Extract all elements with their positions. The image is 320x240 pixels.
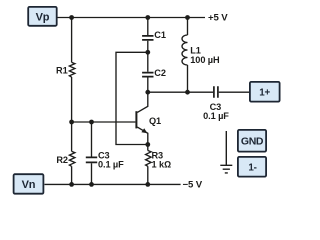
wire C3 bypass branch: [91, 122, 93, 184]
svg-text:0.1 µF: 0.1 µF: [203, 111, 229, 121]
junction bottom rail / left column: [69, 182, 74, 187]
junction base / C3: [89, 120, 94, 125]
junction C1-C2 midpoint: [145, 50, 150, 55]
connector box Vp: [28, 7, 57, 26]
svg-text:R2: R2: [56, 155, 68, 165]
svg-text:GND: GND: [241, 136, 264, 148]
svg-text:−5 V: −5 V: [183, 180, 203, 191]
capacitor C3 bypass: [86, 157, 97, 162]
wire emitter to R3: [147, 145, 149, 185]
connector box 1+: [250, 82, 280, 102]
resistor R2: [69, 151, 75, 166]
wire bottom -5V rail: [45, 183, 181, 185]
wire tank column: [147, 18, 149, 93]
junction top rail / Vp: [69, 15, 74, 20]
capacitor C2: [142, 73, 153, 77]
wire output: [148, 91, 250, 93]
svg-text:+5 V: +5 V: [208, 13, 228, 24]
junction L1 bottom: [185, 90, 190, 95]
svg-text:C2: C2: [154, 68, 166, 78]
junction emitter node: [145, 142, 150, 147]
wire L1 branch: [187, 18, 189, 93]
inductor L1: [182, 35, 187, 65]
junction top rail / L1: [185, 15, 190, 20]
svg-text:Vn: Vn: [22, 179, 36, 191]
svg-text:Vp: Vp: [36, 11, 50, 23]
svg-text:L1: L1: [190, 46, 201, 56]
wire top +5V rail: [58, 17, 206, 19]
svg-text:C1: C1: [154, 30, 166, 40]
svg-text:100 µH: 100 µH: [190, 55, 220, 65]
svg-text:R1: R1: [56, 65, 68, 75]
capacitor C3 output: [214, 86, 218, 98]
connector box Vn: [14, 174, 44, 194]
svg-text:1-: 1-: [248, 162, 256, 173]
junction collector node: [145, 90, 150, 95]
connector box 1-: [238, 157, 266, 177]
junction top rail / tank: [145, 15, 150, 20]
wire feedback tap: [116, 52, 148, 144]
svg-text:1 kΩ: 1 kΩ: [152, 160, 171, 170]
wire base: [72, 121, 136, 123]
resistor R1: [69, 62, 75, 77]
junction bottom rail / C3: [89, 182, 94, 187]
connector box GND: [238, 130, 266, 152]
svg-text:0.1 µF: 0.1 µF: [98, 159, 124, 169]
wire left bias column: [71, 18, 73, 185]
capacitor C1: [142, 36, 153, 40]
transistor Q1: [136, 92, 147, 144]
resistor R3: [146, 151, 152, 167]
junction bottom rail / R3: [145, 182, 150, 187]
svg-text:Q1: Q1: [149, 116, 161, 126]
junction base / R1 R2: [69, 120, 74, 125]
ground symbol: [220, 131, 232, 173]
svg-text:1+: 1+: [259, 87, 270, 98]
